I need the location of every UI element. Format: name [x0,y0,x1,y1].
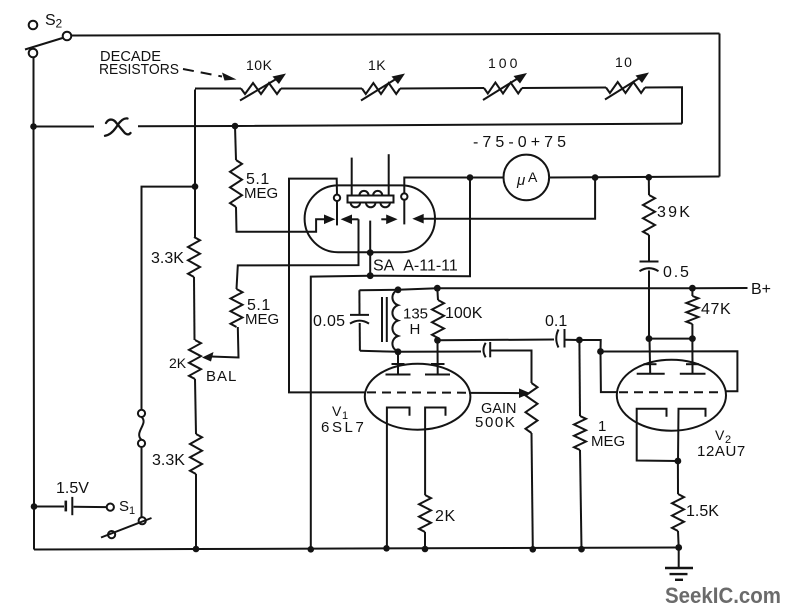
svg-text:3.3K: 3.3K [151,250,184,267]
node bus dot ground [675,544,682,551]
svg-text:1: 1 [129,505,135,517]
tube V1 plate bars [386,374,451,376]
node meter line dot x649 [646,174,653,181]
svg-text:12AU7: 12AU7 [697,443,746,460]
node 0.1 output dot [576,337,583,344]
svg-text:MEG: MEG [591,433,625,450]
resistor 2K cathode [419,495,431,549]
node tank bottom choke dot [395,348,402,355]
chopper arrow 1 [324,215,335,225]
capacitor 0.05 [350,290,369,351]
label S2 [45,12,63,31]
label 1 MEG [591,418,625,450]
chopper contact bar left [336,201,338,225]
chopper coil core bar [348,196,394,203]
potentiometer 1K [361,57,405,101]
node bus dot 3.3K [193,546,200,553]
label chi [105,118,131,135]
svg-text:10: 10 [615,54,633,70]
inductor 135H [392,290,398,352]
svg-text:SeekIC.com: SeekIC.com [665,583,781,608]
svg-text:0.5: 0.5 [663,264,691,281]
potentiometer 10K [240,57,286,101]
svg-text:V: V [715,427,725,443]
chopper arrow 3 [381,215,397,225]
resistor 100K [432,288,444,340]
node battery branch dot [31,503,38,510]
chopper contact bar right [403,200,405,225]
wire B+ rail [359,288,747,290]
potentiometer GAIN 500K [526,383,538,549]
node V2 plate right dot [689,335,696,342]
resistor 1.5K [672,461,684,548]
tube V1 grid dashed [367,391,469,393]
chopper coil lead left [351,158,353,196]
resistor 1 MEG [574,340,586,549]
chopper coil loops [351,191,390,207]
ground symbol [665,548,693,580]
node meter line dot x595 [592,174,599,181]
svg-text:S: S [45,12,56,29]
switch interlock circles and link [138,410,145,517]
svg-text:3.3K: 3.3K [152,452,185,469]
wire left vertical rail [33,57,36,550]
svg-text:47K: 47K [701,301,731,318]
wire V1 grid to gain wiper arrow [469,388,531,398]
svg-text:6SL7: 6SL7 [321,419,366,436]
meter M1 microamp [504,155,550,201]
tube V2 plate lead right [691,339,693,374]
tube V2 12AU7 envelope [617,360,726,431]
battery 1.5V [34,497,107,515]
tube V2 seal ticks [644,363,700,365]
tube V1 seal ticks [392,363,445,365]
capacitor 0.5 [640,262,659,339]
tube V2 plate bars [637,373,706,375]
chopper center stem [369,221,371,276]
svg-text:10K: 10K [246,57,273,73]
svg-text:RESISTORS: RESISTORS [99,62,179,78]
svg-text:2K: 2K [169,355,187,371]
wire right corner down to meter line [719,34,721,177]
label V1 6SL7 [321,403,366,436]
svg-text:SA A-11-11: SA A-11-11 [373,258,458,275]
label DECADE RESISTORS with dashed arrow [99,49,237,81]
svg-text:100: 100 [488,55,520,71]
chopper pin circle right [401,193,407,199]
node tank top choke dot [395,286,402,293]
wire meter to right corner [549,177,719,178]
svg-text:135: 135 [403,306,428,323]
svg-text:μ: μ [516,172,525,189]
wire chopper right pin to meter line [404,178,503,194]
svg-text:1.5V: 1.5V [56,480,89,497]
wire V2 grid loop [601,351,738,392]
potentiometer 2K BAL [189,327,239,434]
svg-text:39K: 39K [657,204,692,221]
tube V2 plate lead left [649,339,652,374]
svg-text:BAL: BAL [206,368,237,385]
wire tank bottom line [360,351,481,352]
node bus dot gain pot [530,546,537,553]
resistor 5.1 MEG lower [231,219,359,327]
node bus dot chopper stem [308,546,315,553]
potentiometer 10 [605,54,649,100]
svg-text:500K: 500K [475,414,516,431]
node bus dot 2K [422,546,429,553]
svg-text:1.5K: 1.5K [686,503,719,520]
wire branch to S1 chain [142,187,196,410]
tube V2 grid dashed [619,391,724,393]
tube V1 plate lead left [397,352,399,375]
wire stem to meter line [370,178,470,277]
svg-text:2K: 2K [435,508,456,525]
tube V1 cathode right [425,408,445,496]
tube V2 cathode left [637,409,678,461]
node stem envelope dot [367,249,374,256]
capacitor 0.1 [556,329,579,348]
node bus dot 1MEG [578,546,585,553]
svg-text:A: A [528,169,538,185]
svg-text:MEG: MEG [244,185,278,202]
wire chopper left pin to grid rail [289,179,365,393]
tube V1 cathode left [387,408,410,549]
tube V1 plate lead right [437,340,439,374]
tube V2 cathode right [678,409,706,461]
wire V2 plate bypass link [649,338,692,340]
svg-text:0.1: 0.1 [545,313,567,330]
svg-text:H: H [410,321,421,338]
resistor 3.3K lower [190,434,202,549]
label S1 [119,498,135,517]
switch S2 [25,21,71,58]
chopper pin circle left [334,195,340,201]
node tank top 100K dot [434,285,441,292]
node chi junction dot left [30,123,37,130]
wire pot row [195,87,682,123]
svg-text:B+: B+ [751,281,771,298]
tube V1 6SL7 envelope [365,364,471,430]
svg-text:0.05: 0.05 [313,313,345,330]
svg-text:-75-0+75: -75-0+75 [473,134,566,151]
resistor 5.1 MEG upper [230,126,327,232]
label 135 H [403,306,428,339]
chopper coil lead right [388,154,390,195]
node chi junction dot 5.1MEG [232,123,239,130]
svg-text:1K: 1K [368,57,386,73]
wire ground bus [34,548,679,550]
chopper arrow 2 [341,215,359,225]
wire top bus from S2 to right corner [72,34,720,36]
inductor 135H core bars [382,297,387,342]
chopper arrow 4 [412,178,595,224]
wire 0.1 to V2 grid corner [579,340,600,352]
wire stem to ground rail [311,276,370,550]
node B+ 47K dot [689,285,696,292]
wire 0.1 line from 100K bottom [438,339,555,342]
resistor 3.3K upper [188,237,200,340]
resistor 39K [643,177,655,260]
node V2 grid corner dot [597,348,604,355]
label V2 12AU7 [697,427,746,460]
label 5.1 MEG lower [245,297,279,328]
potentiometer 100 [483,55,527,100]
node V2 cathode junction dot [675,458,682,465]
node V2 plate left dot [646,335,653,342]
node meter line dot x470 [467,174,474,181]
resistor 47K [686,288,698,338]
node stem bottom dot [367,272,374,279]
chopper U1 SA A-11-11 envelope [305,185,435,252]
label GAIN 500K [475,401,516,431]
wire decade pot feed vertical [194,90,196,238]
capacitor coupling to gain pot [483,342,531,383]
switch S1 [101,504,152,539]
svg-text:2: 2 [56,17,63,31]
node decade feed branch dot [192,183,199,190]
label 5.1 MEG upper [244,171,278,202]
wire chi line [34,124,683,127]
svg-text:V: V [332,403,342,419]
svg-text:S: S [119,498,129,515]
node bus dot V1 cathode [383,545,390,552]
svg-text:MEG: MEG [245,311,279,328]
node 100K bottom dot [434,337,441,344]
svg-text:100K: 100K [445,305,483,322]
